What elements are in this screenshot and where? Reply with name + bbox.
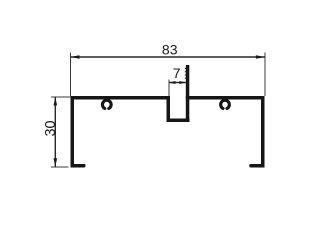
svg-text:83: 83: [162, 42, 178, 58]
svg-text:7: 7: [173, 65, 181, 81]
profile left foot: [71, 164, 86, 168]
profile right foot: [249, 164, 264, 168]
extension line 83 right: [264, 53, 266, 97]
arrow 83 left: [71, 55, 80, 58]
extension line 30 bottom: [51, 166, 69, 168]
clip ring right: [221, 100, 230, 108]
svg-text:30: 30: [43, 120, 59, 136]
stub serration tick 3: [185, 74, 186, 75]
profile right wall: [261, 96, 265, 168]
channel bottom web: [167, 119, 190, 123]
extension line 30 top: [51, 96, 70, 98]
arrow 7 left: [169, 81, 176, 84]
channel left wall: [167, 96, 171, 122]
profile top web right segment: [186, 96, 265, 100]
dimension line 30: [54, 97, 56, 167]
stub serration tick 4: [185, 78, 186, 79]
profile left wall: [71, 96, 75, 168]
arrow 30 top: [54, 97, 58, 106]
arrow 30 bottom: [54, 158, 58, 167]
dimension line 7: [169, 82, 186, 84]
profile top web left segment: [71, 96, 171, 100]
arrow 7 right: [179, 81, 186, 84]
stub serration tick 2: [185, 71, 186, 72]
dimension line 83: [71, 56, 265, 58]
clip ring left: [102, 100, 111, 108]
stub serration tick 1: [185, 68, 186, 69]
extension line 83 left: [70, 53, 72, 97]
arrow 83 right: [256, 55, 265, 58]
extension line 7 left: [168, 80, 170, 97]
channel right wall and upper stub: [186, 65, 190, 122]
